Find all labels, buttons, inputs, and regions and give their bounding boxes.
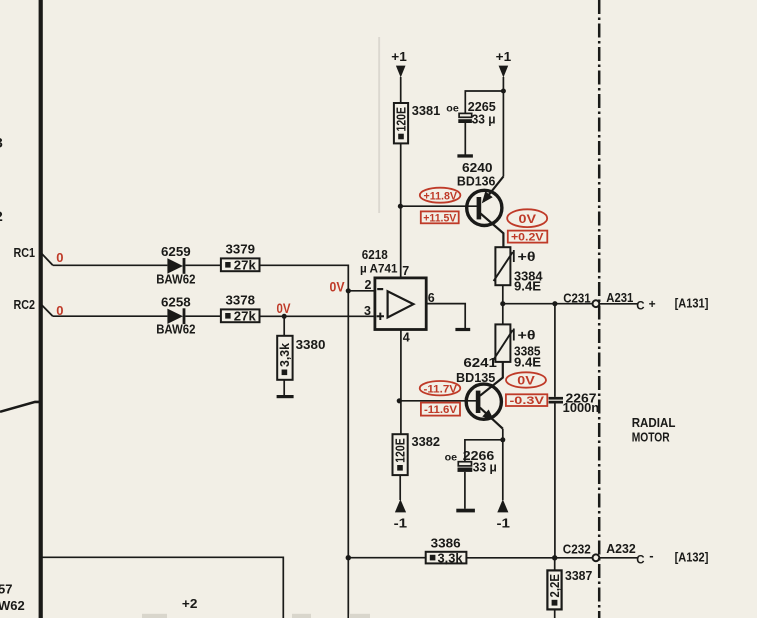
wire base of 6241 [399, 400, 478, 402]
wire op-amp pin 6 output to ground [426, 304, 465, 328]
wire bottom-left rail [40, 557, 283, 618]
wire 3385 to collector 6241 [480, 362, 503, 396]
op-amp triangle [388, 291, 414, 317]
svg-text:33 μ: 33 μ [472, 112, 496, 127]
svg-text:+θ: +θ [518, 328, 536, 342]
wire 3380 top lead [283, 316, 285, 336]
resistor 3382 120E [393, 434, 408, 475]
thermistor 3384 9.4E [494, 247, 514, 285]
svg-text:6259: 6259 [161, 244, 191, 259]
svg-text:3,3k: 3,3k [278, 343, 292, 367]
svg-text:-1: -1 [497, 515, 511, 530]
svg-text:BAW62: BAW62 [156, 322, 195, 337]
svg-text:µ A741: µ A741 [360, 262, 398, 276]
transistor 6240 BD136 circle [467, 190, 502, 225]
svg-text:2: 2 [365, 278, 372, 292]
svg-text:A232: A232 [606, 542, 636, 556]
svg-text:+1: +1 [496, 49, 512, 64]
wire 3387 bottom lead [554, 609, 556, 618]
node junction pin2 / feedback [346, 288, 351, 293]
svg-text:+θ: +θ [518, 250, 536, 264]
red oval -11.7V [420, 381, 461, 395]
node junction emitter / cap 2266 [500, 437, 505, 442]
wire from left edge into bus bar [0, 402, 41, 412]
wire C231 rail to connector [503, 303, 593, 305]
red box +0.2V [508, 231, 548, 244]
wire +1 left to resistor 3381 [400, 77, 402, 103]
wire diode 6259 to resistor 3379 [185, 264, 221, 266]
wire cap 2267 top lead [554, 304, 556, 397]
op-amp minus input sign [377, 288, 383, 290]
wire 3378 to op-amp pin 3 [260, 315, 375, 317]
node junction base 6240 / pin7 line [398, 204, 403, 209]
svg-text:RC1: RC1 [14, 245, 36, 260]
wire branch to cap 2266 [465, 440, 503, 462]
svg-text:+11.8V: +11.8V [424, 190, 458, 202]
red box +11.5V [421, 211, 459, 224]
svg-text:3381: 3381 [412, 103, 441, 118]
supply -1 left arrow [395, 499, 406, 512]
svg-text:BD136: BD136 [457, 174, 496, 189]
svg-text:0V: 0V [330, 279, 345, 294]
svg-text:-11.7V: -11.7V [424, 383, 458, 395]
faint artifact bottom 2 [292, 614, 311, 618]
faint artifact bottom 3 [349, 614, 370, 618]
transistor 6240 emitter lead with arrow (PNP) [482, 177, 504, 204]
transistor 6241 emitter lead with arrow (NPN) [480, 408, 503, 429]
svg-text:oe: oe [445, 451, 458, 463]
wire branch to cap 2265 [465, 91, 503, 113]
resistor 3386 3.3k [426, 552, 467, 566]
svg-text:A231: A231 [606, 291, 633, 305]
wire RC2 diagonal from bus [42, 305, 53, 316]
wire 3387 top lead [554, 558, 556, 571]
wire RC1 to diode 6259 [53, 264, 168, 266]
svg-text:-1: -1 [394, 515, 408, 530]
svg-text:9.4E: 9.4E [514, 280, 541, 294]
resistor 3387 2.2E [547, 570, 561, 609]
wire 3382 to -1 arrow [399, 475, 401, 500]
svg-text:[A132]: [A132] [675, 550, 709, 564]
wire RC1 diagonal from bus [42, 253, 53, 265]
transistor 6241 base bar [476, 391, 481, 413]
node junction RC2/3380 [282, 314, 287, 319]
red oval 0V at 6241 [506, 372, 546, 387]
node junction feedback / 3386 rail [346, 555, 351, 560]
connector circle C231 [593, 300, 600, 307]
svg-text:[A131]: [A131] [675, 297, 709, 311]
svg-text:+: + [649, 297, 656, 311]
svg-text:0V: 0V [519, 212, 537, 226]
svg-text:C: C [636, 555, 644, 567]
svg-text:+1: +1 [391, 49, 407, 64]
svg-text:0: 0 [56, 250, 63, 265]
supply +1 right arrow [499, 66, 509, 78]
supply -1 right arrow [497, 499, 508, 512]
svg-text:+0.2V: +0.2V [511, 232, 544, 244]
node junction C232 rail / 3387 [552, 555, 557, 560]
wire base of 6240 [400, 205, 478, 207]
red box -11.6V [421, 403, 460, 417]
svg-text:3386: 3386 [431, 535, 461, 550]
wire +1 right down to emitter 6240 [502, 77, 504, 177]
wire diode 6258 to resistor 3378 [185, 315, 221, 317]
faint artifact bottom 1 [142, 614, 167, 618]
svg-text:MOTOR: MOTOR [632, 429, 670, 444]
svg-text:3378: 3378 [226, 293, 256, 308]
svg-text:-0.3V: -0.3V [510, 395, 545, 407]
diode 6259 BAW62 [167, 258, 185, 274]
svg-text:3: 3 [0, 135, 3, 151]
ground bar below 2266 [456, 509, 475, 513]
wire feedback rail to resistor 3386 [348, 557, 425, 559]
transistor 6240 base bar [477, 197, 482, 219]
svg-text:BD135: BD135 [456, 370, 495, 385]
resistor 3381 120E [394, 103, 409, 143]
wire A231 stub [599, 303, 637, 305]
wire rail down to 3385 [502, 304, 504, 325]
thermistor 3385 9.4E [494, 324, 514, 362]
svg-text:6241: 6241 [463, 355, 497, 370]
svg-text:3,3k: 3,3k [438, 552, 463, 566]
svg-text:3382: 3382 [412, 434, 441, 449]
svg-text:0: 0 [56, 303, 63, 318]
svg-text:BAW62: BAW62 [156, 271, 195, 286]
red box -0.3V [506, 394, 547, 407]
svg-text:6218: 6218 [362, 247, 388, 262]
wire RC2 to diode 6258 [53, 315, 168, 317]
wire 3386 to C232 connector [466, 557, 592, 559]
capacitor 2265 33u electrolytic [458, 113, 472, 123]
op-amp U6218 box [375, 278, 426, 330]
transistor 6241 BD135 circle [466, 384, 501, 419]
svg-text:-: - [649, 548, 653, 563]
svg-text:4: 4 [403, 331, 410, 345]
ground bar below 3380 [277, 395, 294, 398]
svg-text:6240: 6240 [462, 160, 493, 175]
svg-text:27k: 27k [234, 310, 256, 324]
svg-text:oe: oe [446, 102, 459, 114]
wire 2265 to ground [464, 123, 466, 155]
svg-text:120E: 120E [394, 438, 408, 463]
svg-text:C: C [636, 301, 644, 313]
red oval +11.8V [420, 188, 461, 203]
red oval 0V at 6240 emitter-collector [507, 209, 547, 227]
wire A232 stub [599, 557, 637, 559]
svg-text:0V: 0V [517, 373, 535, 387]
ground bar below 2265 [457, 154, 473, 157]
svg-text:2: 2 [0, 208, 3, 224]
connector circle C232 [593, 554, 600, 561]
svg-text:2,2E: 2,2E [548, 574, 562, 598]
svg-text:6258: 6258 [161, 295, 191, 310]
diode 6258 BAW62 [167, 308, 185, 324]
dash-dot interconnect line [598, 0, 601, 618]
wire 3380 bottom lead [283, 380, 285, 395]
node junction rail / cap 2267 [552, 301, 557, 306]
wire emitter 6241 down [502, 429, 504, 500]
svg-text:C231: C231 [563, 292, 591, 306]
supply +1 left arrow [396, 66, 406, 78]
svg-text:1000n: 1000n [563, 401, 599, 415]
node junction pin4 line / base 6241 [397, 398, 402, 403]
op-amp plus input sign [377, 313, 384, 320]
svg-text:120E: 120E [394, 107, 408, 132]
svg-text:C232: C232 [563, 542, 591, 556]
wire 2266 to ground [464, 472, 466, 509]
svg-text:3387: 3387 [565, 568, 592, 583]
svg-text:-11.6V: -11.6V [424, 404, 457, 416]
ground bar at pin 6 [455, 328, 470, 331]
svg-text:RC2: RC2 [14, 297, 36, 312]
svg-text:+2: +2 [182, 596, 198, 611]
svg-text:+11.5V: +11.5V [423, 212, 456, 224]
resistor 3378 27k [221, 309, 260, 323]
transistor 6240 collector lead [481, 214, 504, 248]
scan streak artifact [378, 37, 380, 213]
svg-text:33 μ: 33 μ [473, 460, 497, 475]
wire op-amp pin 4 down [400, 330, 402, 435]
wire feedback line down to bottom rail [347, 291, 349, 618]
wire cap 2267 bottom lead [554, 404, 556, 558]
svg-text:3380: 3380 [296, 337, 326, 352]
resistor 3379 27k [221, 258, 260, 272]
svg-text:9.4E: 9.4E [514, 356, 541, 370]
bus bar (thick vertical line left) [39, 0, 43, 618]
wire 3384 to C231 rail [502, 285, 504, 304]
svg-text:27k: 27k [234, 259, 256, 273]
node junction +1 / cap 2265 [501, 89, 506, 94]
svg-text:W62: W62 [0, 598, 25, 613]
capacitor 2267 1000n [549, 397, 563, 404]
wire 3381 down to op-amp pin 7 [400, 143, 402, 278]
svg-text:RADIAL: RADIAL [632, 415, 676, 430]
wire 3379 to op-amp pin 2 (with jog down) [260, 265, 375, 291]
svg-text:57: 57 [0, 582, 12, 597]
svg-text:7: 7 [402, 264, 409, 278]
svg-text:3: 3 [364, 304, 371, 318]
capacitor 2266 33u electrolytic [458, 462, 473, 472]
svg-text:0V: 0V [277, 301, 291, 316]
resistor 3380 3.3k [277, 336, 292, 380]
node junction 3384/3385/C231 [500, 301, 505, 306]
svg-text:3379: 3379 [226, 242, 256, 257]
